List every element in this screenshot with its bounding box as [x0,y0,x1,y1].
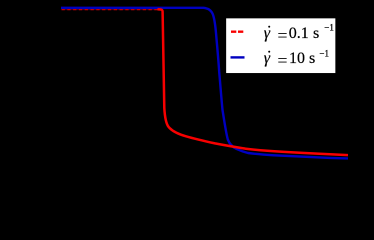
curve: blue solid (gamma-dot = 10 1/s) [61,8,348,159]
svg-text:=: = [277,25,287,45]
svg-text:s: s [309,50,315,67]
svg-text:−1: −1 [324,23,334,33]
svg-text:=: = [277,50,287,70]
svg-text:10: 10 [289,50,305,67]
legend row 1 text: gamma-dot = 0.1 s^-1 [264,23,334,46]
curve: red dashed plateau underlay blend (gamma-dot = 0.1 1/s) [62,8,159,10]
legend row 2 text: gamma-dot = 10 s^-1 [264,48,329,70]
curve: red solid drop and tail (gamma-dot = 0.1 1/s) [158,9,349,155]
legend sample: red dashed [231,31,243,33]
svg-text:0.1: 0.1 [289,25,309,42]
curve: red dashed plateau (gamma-dot = 0.1 1/s) [62,8,159,10]
legend sample: blue solid [231,56,245,58]
svg-text:−1: −1 [319,48,329,58]
svg-text:γ: γ [264,50,271,67]
svg-text:γ: γ [264,25,271,42]
svg-text:s: s [313,25,319,42]
legend box [226,18,337,74]
